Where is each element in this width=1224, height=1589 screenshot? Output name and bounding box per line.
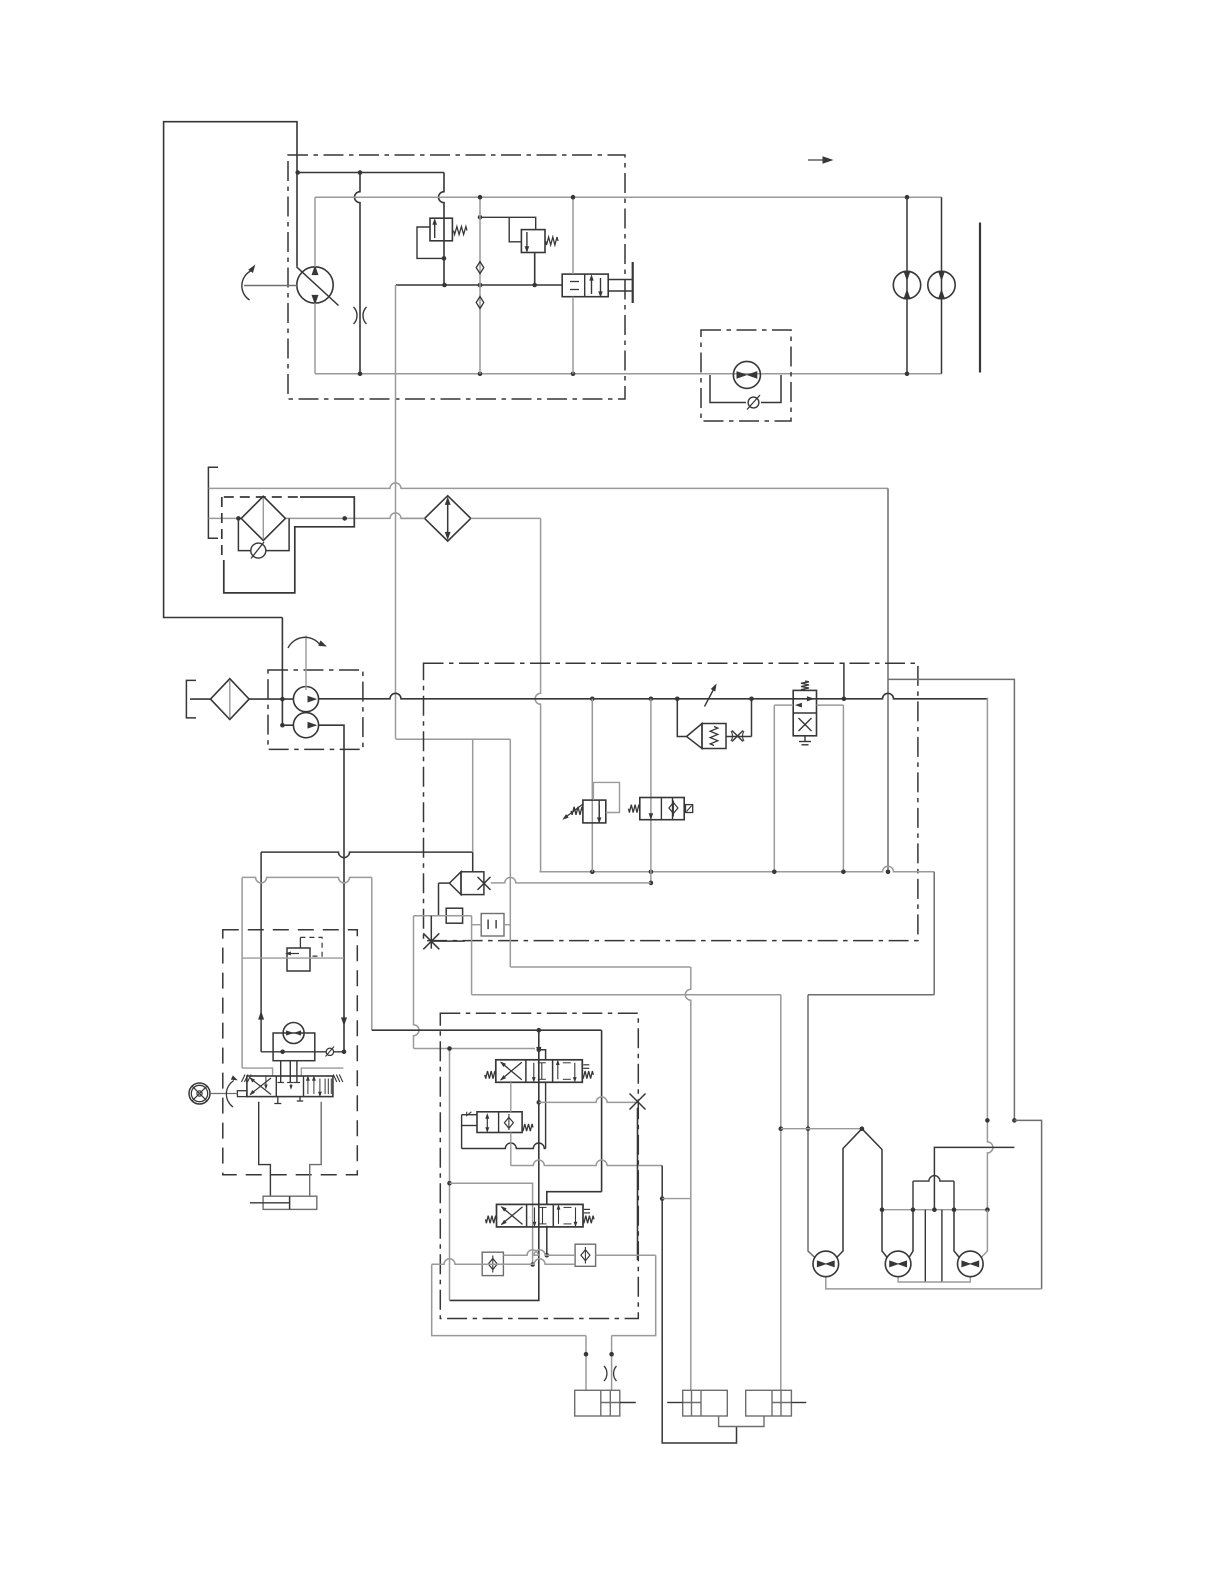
tank symbol T1: [208, 467, 218, 538]
wire: y=1165.8 gray: [511, 1160, 662, 1165]
gray crown around valve: [242, 1068, 273, 1076]
gerotor ports to valve: [280, 1061, 282, 1083]
wire: LS gray x=395.5 then y=739.3: [395, 285, 397, 738]
wire: L_up y=1255.2: [503, 1250, 575, 1255]
flow direction arrow (top right): [808, 159, 824, 161]
gear pump P2 (upper): [293, 687, 318, 712]
bridge M2-M3: [913, 1176, 954, 1182]
wire: feed from top-left loop: [281, 618, 283, 726]
orifice/nozzle symbols on x=480: [476, 262, 484, 274]
wire RV2 to servo line: [534, 253, 536, 286]
wire: servo supply x=573: [572, 197, 574, 274]
pressure reducing valve VA: [583, 800, 606, 823]
jog to valve1: [539, 1050, 546, 1060]
wire: x=538.8 dark main: [450, 1030, 539, 1300]
wire: pump top port: [314, 197, 316, 267]
wire: x=510.3 gray: [509, 739, 511, 967]
load bar: [979, 223, 981, 373]
wire: valveA feed x=592.3: [591, 699, 593, 872]
wire: valveB feed x=650.9: [650, 699, 652, 883]
damper box B2: [481, 914, 504, 937]
wire: park brake feeds: [585, 1336, 587, 1391]
wire: inner gray left edge: [241, 877, 243, 1068]
filter F1 manifold outline: [224, 497, 354, 593]
wire: bus drop x=934.2: [933, 872, 935, 995]
wire: y=1209.7: [882, 1209, 987, 1211]
wire: P3 outlet to steering column: [319, 725, 344, 852]
wire: steering pilot y=852.1: [261, 852, 473, 858]
wire: y=679.4 to x=1014.4: [888, 679, 1014, 1120]
wire: y=1165.8 corner down x=662.2: [662, 1166, 736, 1444]
wire: y=1191.7 to valve2: [547, 1192, 602, 1205]
wire: suction to gear pump: [190, 698, 211, 700]
gray manifold edge: [414, 915, 472, 917]
wire: x=690.6 down to brake cyl: [685, 967, 691, 1390]
wire: tank/case line top-left outer L: [164, 122, 297, 618]
wire: relief line y=958.1: [242, 957, 344, 959]
wire: x=637.5 below X: [637, 1108, 639, 1260]
wire: cooler return down x=540.6: [535, 518, 541, 871]
wheel motor M3: [958, 1251, 984, 1277]
gerotor metering unit: [283, 1023, 304, 1044]
wire: cooler inlet/outlet: [401, 517, 425, 519]
wire: loop return gray y=373.8: [315, 373, 942, 375]
wire: gerotor check line y=1051.8: [261, 1051, 344, 1053]
check box K2: [575, 1244, 596, 1266]
shaft line P1: [244, 285, 297, 287]
cooler HX1: [425, 496, 471, 541]
enclosure: hydrostatic pump dash-dot box: [288, 155, 625, 399]
wire: x=808 to motor M1: [808, 995, 815, 1258]
wire: U-link cyl2-cyl3: [719, 1416, 764, 1427]
wire: shuttle out gray y=882.9: [491, 877, 651, 883]
wire: y=697.6 corner x=987.4: [987, 698, 993, 1210]
suction strainer F2: [211, 679, 250, 720]
wire: gray return y=877.4: [242, 877, 372, 883]
relief valve RV2: [521, 230, 545, 253]
wire: case drain down right side x=888: [887, 488, 889, 871]
wire: priority flow y=1030.2: [372, 1029, 602, 1031]
servo rod + lever: [608, 279, 632, 281]
wire: V4 gray loop: [774, 704, 793, 706]
plugged port X: [423, 933, 439, 949]
servo cylinder (pump stroker): [562, 274, 608, 297]
wire: x=472.7 gray from y=739.3: [472, 739, 474, 852]
steering control valve: [247, 1076, 333, 1097]
solenoid valve VB: [640, 798, 684, 820]
wire: y=967 gray: [510, 966, 690, 968]
brake cylinder CYL1: [575, 1390, 620, 1416]
wire: jog y=1183.2: [450, 1183, 533, 1264]
rotation arrow P2: [288, 637, 321, 648]
wire: x=1041.6 to motor bus: [1014, 1120, 1041, 1289]
filter F1 bypass check: [238, 518, 250, 550]
wire: steering left leg x=261.1: [260, 852, 262, 1052]
wire: x=449.5 gray: [449, 1049, 451, 1301]
wheel motor M1: [813, 1251, 839, 1277]
wire: pilot x=413.5 to y=1048.5: [414, 916, 420, 1049]
wire: main charge line y=698.8: [319, 693, 988, 698]
wire: y=994.7 right segment: [808, 994, 934, 996]
wire: charge line vertical x=360: [355, 173, 361, 374]
wire: return-to-tank gray header y=488.4: [208, 483, 888, 488]
wire: y=994.7 gray left segment: [472, 994, 781, 996]
shuttle valve (cone + X box): [461, 872, 484, 895]
unloader valve V4: [793, 690, 816, 735]
wire: x=546.8 through CV2: [546, 1226, 548, 1256]
wire: orifice branch x=480: [479, 197, 481, 374]
wire: right riser x=655.7: [612, 1255, 656, 1335]
check box K1: [482, 1252, 503, 1275]
wire: y=1128.7: [781, 1128, 862, 1130]
wire: M2 left: [882, 1210, 887, 1258]
wire: pump bottom port to loop: [314, 303, 316, 374]
tank stub under V4: [804, 736, 806, 742]
filter F1: [241, 496, 285, 540]
orifice X after cone valve: [726, 736, 752, 738]
wire: valve1 to CB: [510, 1082, 512, 1112]
steering wheel: [189, 1083, 210, 1104]
steering relief: [287, 948, 310, 971]
VB solenoid box: [686, 805, 693, 813]
wire: M2-M3 bottom y=1282: [898, 1277, 970, 1282]
brake cylinder CYL3: [746, 1390, 792, 1416]
control valve CV1: [496, 1060, 583, 1083]
wire: x=371.8 gray drop: [371, 877, 373, 1030]
fan motor bypass + check: [710, 375, 746, 403]
VA pilot loop: [593, 782, 619, 812]
wire: charge/boost gray header y=197.2: [315, 196, 942, 198]
small box B1: [446, 908, 462, 923]
coupling symbol )(: [354, 307, 367, 324]
wire: L_dn y=1264.3: [432, 1259, 575, 1265]
brake cylinder CYL2: [683, 1390, 728, 1416]
wire: M3 right: [981, 1210, 987, 1258]
wire: shuttle feed down: [472, 852, 474, 872]
gear pump P3 (lower): [293, 713, 318, 738]
valve tank stubs: [277, 1097, 279, 1104]
motor M-B (right travel motor): [928, 271, 955, 298]
wire: relief feed x=444: [439, 173, 445, 286]
wire: y=1147.4 dark: [934, 1147, 1014, 1209]
wire: y=1102.4 to plug X: [539, 1097, 638, 1103]
wire: left drop to y=1335: [432, 1264, 586, 1335]
relief valve RV1: [430, 218, 452, 241]
enclosure: loader valve dash-dot box: [440, 1013, 638, 1318]
wire: motor bottom bus y=1288.9: [826, 1277, 1042, 1289]
control valve CV2: [497, 1204, 584, 1227]
enclosure: fan motor dash-dot box: [701, 330, 791, 421]
valve internals: [250, 1078, 271, 1095]
wire: M2 right / M3 left down: [909, 1210, 913, 1258]
wire: servo control line y=285: [396, 284, 562, 286]
wire: gray bus y=871.8: [540, 866, 935, 871]
gear pump shaft: [305, 636, 307, 690]
enclosure: gear pump dash-dot box: [268, 670, 363, 749]
CB loop to valve1: [461, 1115, 463, 1149]
variable orifice arrow: [705, 690, 714, 707]
wheel motor M2: [885, 1251, 911, 1277]
coupling )( above brake cyl: [604, 1366, 617, 1381]
handle port box: [237, 1091, 247, 1097]
wire: x=601.6 dark: [601, 1030, 603, 1192]
wire: x=780.8 long gray: [780, 995, 782, 1391]
wire: suction line y=518.4: [208, 517, 241, 519]
enclosure: mid manifold dash-dot box: [424, 663, 918, 940]
tent diagonals: [837, 1129, 862, 1258]
pilot-operated valve (cone+spring): [687, 724, 703, 749]
fan motor: [733, 361, 760, 388]
enclosure: steering unit dashed box: [223, 930, 357, 1175]
rotation arrow P1: [242, 271, 251, 300]
motor M-A (left travel motor): [893, 271, 920, 298]
stub from border: [843, 663, 845, 699]
steering cylinder: [263, 1196, 317, 1209]
steering cylinder link: [259, 1102, 271, 1196]
counterbalance valve CB: [477, 1112, 522, 1133]
crossover legs: [924, 1210, 926, 1282]
pump P1 (variable displacement): [297, 267, 333, 303]
hatch marks: [242, 1075, 246, 1083]
tank symbol T2: [186, 680, 196, 718]
wire: steering feed x=344 cont.: [343, 852, 345, 1052]
pilot relief loop legs: [677, 699, 686, 737]
wire: top header y=172.5: [297, 172, 444, 174]
